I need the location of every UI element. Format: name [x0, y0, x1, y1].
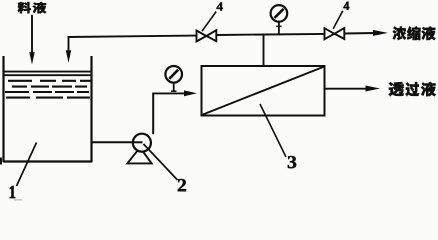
leader to label 3 — [260, 104, 286, 157]
label 1 — [10, 186, 15, 198]
liquid level dashes — [5, 81, 91, 98]
label 4 (right) — [343, 2, 349, 10]
label 3 — [288, 156, 296, 168]
membrane module 3 — [202, 66, 325, 116]
tank 1 — [3, 56, 92, 162]
edge artifact marks — [0, 158, 22, 201]
top pipe: valve 4a to valve 4b — [216, 34, 324, 35]
pressure gauge (top) stem — [276, 21, 281, 34]
valve 4 (left) — [197, 30, 217, 41]
pump stand triangle — [127, 148, 151, 164]
return pipe arrow into tank — [66, 36, 71, 63]
top pipe: tank riser to valve 4a — [68, 36, 197, 37]
pressure gauge (top) — [271, 5, 288, 22]
pipe: pump discharge riser — [152, 93, 154, 134]
liquid surface double line — [4, 72, 92, 76]
pressure gauge (pump) — [165, 66, 182, 83]
label 浓缩液 (concentrate) — [393, 26, 436, 40]
label 料液 (feed liquid) — [18, 2, 47, 13]
label 2 — [178, 179, 186, 191]
leader to label 4 (right) — [333, 11, 343, 29]
label 4 (left) — [217, 3, 223, 11]
pipe: pump to module with arrow — [152, 90, 197, 96]
leader to label 4 (left) — [202, 12, 216, 32]
pipe: valve 4b to concentrate outlet — [344, 30, 388, 36]
leader to label 1 — [17, 143, 37, 187]
label 透过液 (permeate) — [389, 82, 436, 96]
pump 2 — [133, 134, 151, 152]
pipe: tank to pump suction — [92, 141, 142, 143]
pressure gauge (pump) stem — [171, 83, 177, 92]
pipe: top pipe down to module top — [263, 35, 265, 66]
leader to label 2 — [144, 144, 178, 180]
feed arrow into tank — [29, 15, 34, 65]
pipe: module to permeate outlet — [325, 86, 381, 92]
valve 4 (right) — [325, 28, 345, 39]
